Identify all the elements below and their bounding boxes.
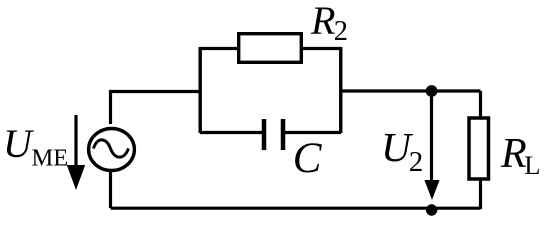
svg-text:R: R xyxy=(310,0,335,43)
svg-text:L: L xyxy=(524,150,540,180)
svg-text:C: C xyxy=(293,135,323,182)
svg-text:2: 2 xyxy=(409,146,424,178)
svg-text:ME: ME xyxy=(32,145,69,172)
svg-text:U: U xyxy=(3,121,35,166)
svg-text:R: R xyxy=(500,131,527,177)
svg-text:2: 2 xyxy=(334,16,348,47)
